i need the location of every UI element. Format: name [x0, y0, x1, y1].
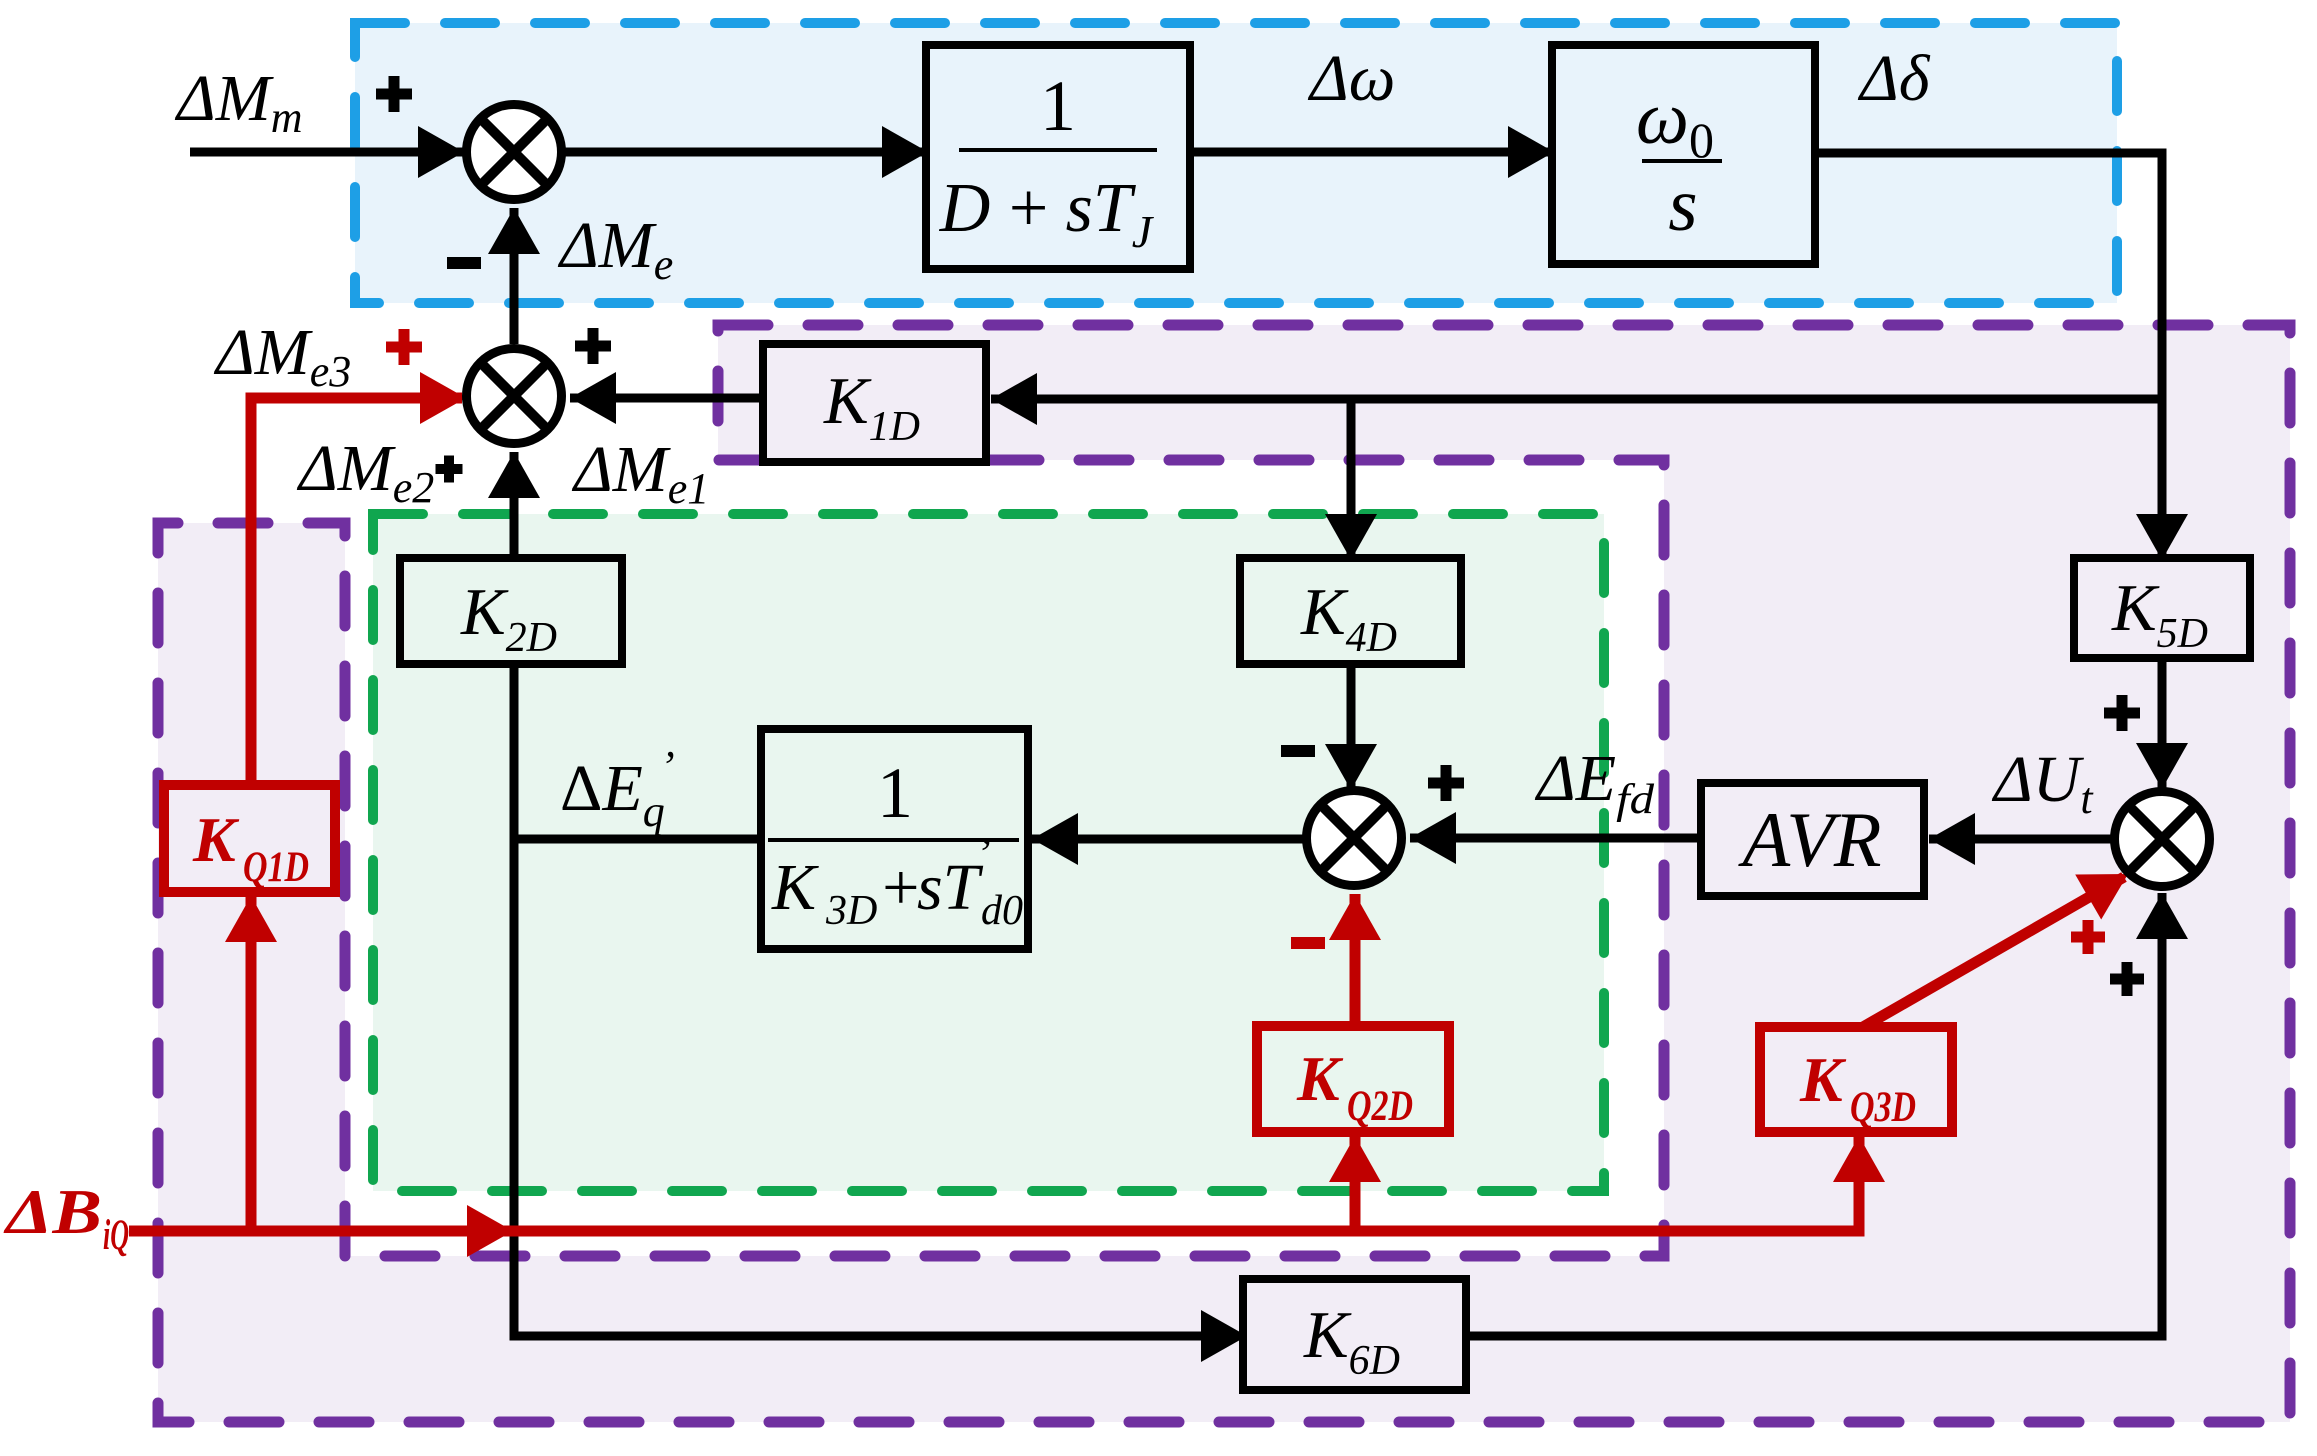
wire: K5D to summer S4	[2158, 658, 2167, 791]
block KQ3D (red)	[1760, 1027, 1952, 1132]
sign plus at S2 right	[575, 328, 611, 364]
wire: KQ1D output dMe3 into S2	[251, 398, 462, 785]
block 1/(D+sTj)	[926, 45, 1190, 269]
wire: S4 output dUt into AVR	[1929, 835, 2116, 844]
wire: K6D output up into S4 bottom	[1466, 893, 2162, 1336]
svg-text:ΔMe3: ΔMe3	[213, 316, 351, 396]
svg-text:K: K	[1799, 1044, 1847, 1115]
svg-text:ΔB: ΔB	[2, 1177, 102, 1247]
block K4D	[1240, 558, 1461, 664]
svg-text:+: +	[878, 851, 923, 924]
summer S2 (torque sum)	[467, 349, 562, 444]
svg-text:ΔMm: ΔMm	[174, 62, 303, 142]
summer S4 (voltage)	[2115, 792, 2210, 887]
svg-text:ΔMe1: ΔMe1	[571, 433, 709, 513]
block KQ2D (red)	[1257, 1026, 1449, 1132]
svg-text:Δδ: Δδ	[1857, 42, 1931, 115]
block K2D	[400, 558, 622, 664]
sign minus at S3 top	[1281, 745, 1315, 757]
svg-text:iQ: iQ	[103, 1212, 129, 1259]
sign plus red at S4 diag	[2071, 920, 2105, 954]
wire: red branch up into KQ1D	[246, 896, 257, 1231]
wire: dBiQ main red line	[129, 1136, 1859, 1231]
svg-text:1: 1	[877, 753, 913, 833]
svg-text:K: K	[1296, 1043, 1344, 1114]
sign plus at S4 bottom	[2110, 962, 2144, 996]
svg-text:1: 1	[1040, 66, 1076, 146]
wire: K1D feedback feed from spine	[991, 395, 2162, 404]
wire: vertical K2D to Eq line to K6D feed	[514, 664, 1247, 1336]
block KQ1D (red)	[164, 785, 335, 892]
sign plus at S1 input	[376, 76, 412, 112]
svg-text:Q2D: Q2D	[1347, 1083, 1413, 1130]
svg-text:sT: sT	[917, 851, 984, 924]
svg-text:Q3D: Q3D	[1850, 1084, 1916, 1131]
svg-text:Δω: Δω	[1307, 42, 1395, 115]
summer S3 (field)	[1307, 791, 1402, 886]
wire: KQ3D diagonal output into S4	[1863, 877, 2124, 1027]
field winding subsystem region (green dashed box)	[373, 514, 1604, 1191]
wire: KQ2D output into S3 bottom	[1350, 894, 1361, 1026]
sign plus red at S2 left	[386, 329, 422, 365]
wire: K1D output to summer S2	[570, 394, 763, 403]
svg-text:’: ’	[660, 742, 675, 791]
svg-text:K: K	[192, 804, 240, 875]
wire: red arrow into KQ3D	[1833, 1136, 1885, 1182]
svg-text:K: K	[771, 851, 819, 924]
svg-text:s: s	[1668, 164, 1697, 247]
sign plus at S3 right	[1428, 765, 1464, 801]
sign minus red at S3 bottom	[1291, 937, 1325, 949]
svg-text:D + sTJ: D + sTJ	[939, 170, 1155, 257]
block 1/(K3D+sTd0)	[761, 729, 1028, 949]
svg-text:’: ’	[976, 829, 991, 878]
sign plus at S4 top	[2104, 695, 2140, 731]
wire: S2 up into S1 (dMe minus)	[510, 208, 519, 344]
block AVR	[1701, 783, 1924, 896]
sign minus at S1 bottom	[447, 257, 481, 269]
block K5D	[2074, 558, 2250, 658]
svg-text:ΔMe2: ΔMe2	[296, 432, 434, 512]
svg-text:d0: d0	[981, 888, 1023, 934]
svg-text:ΔUt: ΔUt	[1991, 743, 2094, 823]
block K1D	[763, 344, 986, 462]
block w0/s integrator	[1552, 45, 1815, 264]
wire: K4D to summer S3	[1347, 664, 1356, 792]
svg-text:3D: 3D	[825, 888, 877, 934]
wire: junction drop to K4D	[1347, 399, 1356, 562]
wire: dEq output line from fraction block	[514, 835, 761, 844]
summer S1 (rotor)	[467, 105, 562, 200]
rotor motion subsystem region (blue dashed box)	[355, 23, 2117, 303]
wire: input dMm to summer S1	[190, 148, 466, 157]
wire: K2D up into S2	[510, 452, 519, 558]
wire: w0/s output dDelta right and down spine	[1815, 153, 2162, 562]
wire: 1/(D+sTj) to w0/s (dOmega)	[1190, 148, 1556, 157]
wire: red branch up into KQ2D	[1350, 1136, 1361, 1231]
network / voltage subsystem region (purple dashed ring)	[158, 325, 2290, 1422]
svg-text:ΔEfd: ΔEfd	[1534, 742, 1655, 823]
wire: S3 into fraction block	[1032, 835, 1306, 844]
wire: AVR output dEfd into S3	[1410, 834, 1701, 843]
svg-text:AVR: AVR	[1737, 796, 1881, 883]
wire: S1 to block 1/(D+sTj)	[562, 148, 930, 157]
svg-text:Q1D: Q1D	[243, 844, 309, 891]
block K6D	[1243, 1279, 1466, 1390]
sign plus at S2 bottom	[436, 456, 463, 483]
